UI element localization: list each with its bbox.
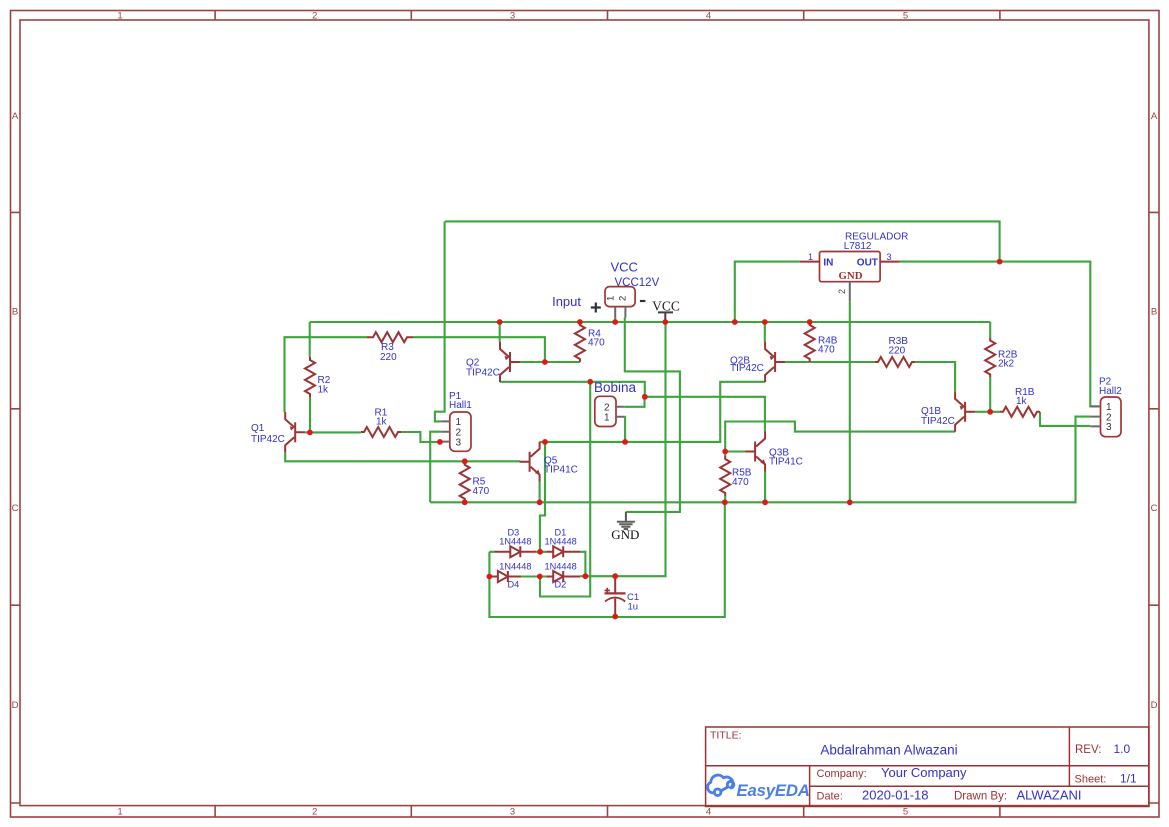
svg-text:Abdalrahman Alwazani: Abdalrahman Alwazani bbox=[820, 743, 957, 758]
wire R3 node bbox=[285, 337, 545, 412]
svg-text:VCC: VCC bbox=[611, 260, 638, 275]
svg-text:5: 5 bbox=[903, 807, 908, 818]
wire battery pin2 to GND flag bbox=[625, 318, 680, 512]
wire regulator GND down bbox=[849, 301, 851, 502]
svg-text:470: 470 bbox=[588, 338, 605, 349]
junction Q2 collector tap bbox=[587, 379, 593, 385]
wire battery pin1 bbox=[614, 318, 616, 323]
svg-text:TITLE:: TITLE: bbox=[710, 730, 742, 742]
resistor R3 bbox=[367, 332, 413, 342]
svg-text:2k2: 2k2 bbox=[998, 359, 1015, 370]
right border ticks bbox=[1149, 212, 1159, 803]
junction Q5 emitter rail bbox=[537, 499, 543, 505]
svg-text:2: 2 bbox=[312, 807, 317, 818]
svg-text:1N4448: 1N4448 bbox=[545, 562, 577, 572]
wire Q2 collector to Bobina pin2 node bbox=[500, 382, 645, 397]
junction bus Q2 emitter bbox=[497, 319, 503, 325]
svg-text:470: 470 bbox=[732, 477, 749, 488]
svg-text:1N4448: 1N4448 bbox=[545, 536, 577, 546]
svg-text:C: C bbox=[1151, 503, 1158, 514]
titleblock divider row1 bbox=[706, 765, 1149, 767]
junction C1 top bbox=[612, 573, 618, 579]
transistor Q3B bbox=[745, 432, 766, 472]
resistor R1B bbox=[1000, 407, 1040, 417]
svg-text:2: 2 bbox=[617, 296, 628, 301]
svg-text:OUT: OUT bbox=[857, 257, 878, 268]
svg-text:4: 4 bbox=[706, 11, 711, 22]
svg-text:D: D bbox=[12, 700, 19, 711]
wire R2B top bbox=[989, 322, 991, 338]
svg-text:1: 1 bbox=[604, 413, 610, 424]
junction Q2 base bbox=[542, 359, 548, 365]
svg-text:TIP41C: TIP41C bbox=[544, 465, 578, 476]
junction diode row2 left bbox=[487, 574, 493, 580]
svg-text:A: A bbox=[12, 111, 19, 122]
junction bus Q2B emitter bbox=[762, 319, 768, 325]
transistor Q1B bbox=[955, 392, 975, 432]
svg-text:A: A bbox=[1151, 111, 1158, 122]
transistor Q5 bbox=[520, 442, 541, 482]
resistor R5B bbox=[720, 456, 730, 496]
svg-text:1.0: 1.0 bbox=[1114, 742, 1131, 756]
junction Q1B base R2B bbox=[987, 409, 993, 415]
svg-text:Sheet:: Sheet: bbox=[1075, 774, 1107, 786]
wire R3B right to Q1B emitter bbox=[915, 362, 955, 392]
junction diode row2 right bbox=[583, 573, 589, 579]
input plus symbol bbox=[591, 303, 601, 313]
svg-text:1N4448: 1N4448 bbox=[499, 536, 531, 546]
diode D2 bbox=[546, 571, 580, 582]
wire Q2B emitter bbox=[764, 322, 766, 342]
svg-text:D4: D4 bbox=[508, 580, 520, 590]
junction Q1 base bbox=[307, 430, 313, 436]
svg-text:2020-01-18: 2020-01-18 bbox=[862, 788, 929, 803]
junction Q3B base R5B top bbox=[722, 449, 728, 455]
wire R2B bottom bbox=[989, 377, 991, 412]
wire R5B stubs bbox=[724, 452, 726, 503]
titleblock divider col rev bbox=[1068, 727, 1070, 786]
titleblock divider col logo bbox=[809, 766, 811, 807]
left border ticks bbox=[11, 212, 21, 803]
svg-text:1N4448: 1N4448 bbox=[499, 562, 531, 572]
titleblock divider row2 bbox=[810, 785, 1149, 787]
wire bus to R2 top bbox=[309, 322, 311, 357]
wire Q2 emitter to bus bbox=[499, 322, 501, 342]
connector P1 Hall1 bbox=[441, 412, 471, 451]
diode D1 bbox=[546, 546, 580, 557]
wire bottom rail bbox=[430, 417, 1090, 503]
junction bus VCC flag bbox=[662, 319, 668, 325]
junction P1 pin3 bbox=[437, 439, 443, 445]
regulator U L7812 bbox=[800, 252, 900, 302]
svg-text:TIP42C: TIP42C bbox=[730, 363, 764, 374]
junction bus R4B bbox=[807, 319, 813, 325]
TITLEBLOCK bbox=[706, 727, 1149, 807]
junction Q5 collector tap bbox=[542, 439, 548, 445]
svg-text:REV:: REV: bbox=[1075, 744, 1101, 756]
junction bus battery pin1 bbox=[612, 319, 618, 325]
junction Bobina pin2 node bbox=[642, 394, 648, 400]
svg-text:TIP41C: TIP41C bbox=[769, 457, 803, 468]
junction R5 bottom bbox=[462, 499, 468, 505]
diode D4 bbox=[490, 571, 521, 582]
transistor Q1 bbox=[285, 412, 305, 452]
resistor R1 bbox=[361, 427, 401, 437]
svg-text:1u: 1u bbox=[628, 602, 639, 613]
wire diode row2 bbox=[521, 322, 666, 577]
svg-text:Hall1: Hall1 bbox=[449, 400, 472, 411]
wire Q2B base to R4B bbox=[785, 361, 810, 363]
wire Bobina pin2 node to Q3B collector bbox=[645, 397, 765, 432]
wire regulator IN bbox=[735, 262, 800, 322]
svg-text:1/1: 1/1 bbox=[1120, 772, 1137, 786]
svg-text:1: 1 bbox=[606, 296, 617, 301]
wire Bobina pin1 drop bbox=[623, 417, 626, 442]
wire R1 right to P1 pin3 bbox=[401, 432, 441, 442]
svg-text:B: B bbox=[12, 307, 18, 318]
svg-text:C: C bbox=[12, 503, 19, 514]
svg-text:ALWAZANI: ALWAZANI bbox=[1017, 788, 1082, 803]
svg-text:TIP42C: TIP42C bbox=[251, 434, 285, 445]
wire Bobina pin2 bbox=[624, 397, 644, 407]
svg-text:1k: 1k bbox=[318, 385, 330, 396]
svg-text:2: 2 bbox=[837, 289, 847, 294]
junction regulator GND rail bbox=[847, 499, 853, 505]
transistor Q2 bbox=[500, 342, 520, 382]
bottom border ticks bbox=[215, 806, 1000, 817]
svg-text:D2: D2 bbox=[555, 580, 567, 590]
svg-text:VCC: VCC bbox=[652, 298, 680, 313]
svg-text:470: 470 bbox=[473, 486, 490, 497]
easyeda logo cloud bbox=[708, 775, 734, 795]
svg-text:1: 1 bbox=[117, 11, 122, 22]
wire Q1 collector to Q5 base bbox=[285, 452, 520, 461]
wire coil node down left bbox=[540, 382, 590, 597]
resistor R2 bbox=[305, 357, 315, 397]
svg-text:Date:: Date: bbox=[817, 791, 843, 803]
junction diode row1 mid bbox=[537, 549, 543, 555]
svg-text:TIP42C: TIP42C bbox=[921, 416, 955, 427]
netflag GND bbox=[611, 512, 639, 542]
svg-text:GND: GND bbox=[839, 270, 863, 282]
wire diode left vertical bbox=[489, 502, 724, 617]
svg-text:Drawn By:: Drawn By: bbox=[954, 791, 1007, 803]
svg-text:TIP42C: TIP42C bbox=[466, 368, 500, 379]
svg-text:4: 4 bbox=[706, 807, 711, 818]
wire R4B bottom to R3B left bbox=[810, 361, 875, 363]
junction C1 bottom bbox=[612, 614, 618, 620]
wire Q5 collector node bbox=[540, 382, 766, 442]
wire Q2 base to R4 bottom bbox=[520, 361, 580, 363]
titleblock outer rect bbox=[706, 727, 1149, 807]
wire R1B elbow to P2 pin3 bbox=[1040, 412, 1090, 426]
junction R5 top bbox=[462, 458, 468, 464]
wire P1 pin2 down to rail bbox=[430, 432, 441, 503]
junction bus regulator IN bbox=[732, 319, 738, 325]
svg-text:3: 3 bbox=[510, 11, 515, 22]
wire main VCC bus bbox=[310, 321, 991, 323]
svg-text:Bobina: Bobina bbox=[594, 380, 637, 395]
wire diode row1 bbox=[489, 552, 585, 576]
svg-text:Your Company: Your Company bbox=[881, 765, 967, 780]
svg-text:Q1: Q1 bbox=[251, 423, 265, 434]
wire regulator OUT to P2 pin1 bbox=[900, 262, 1101, 407]
junction Q3B emitter rail bbox=[762, 499, 768, 505]
wire Q1B base node bbox=[975, 411, 1000, 413]
svg-text:Company:: Company: bbox=[817, 768, 867, 780]
svg-text:VCC12V: VCC12V bbox=[615, 277, 660, 289]
connector Bobina bbox=[595, 396, 624, 426]
resistor R2B bbox=[985, 338, 995, 377]
svg-text:1k: 1k bbox=[376, 417, 388, 428]
transistor Q2B bbox=[765, 342, 785, 382]
wire top horizontal VCC feed bbox=[445, 221, 1000, 261]
netflag VCC input bbox=[652, 298, 680, 322]
svg-text:3: 3 bbox=[887, 252, 892, 262]
wire left vertical to P1 pin1 bbox=[435, 221, 445, 421]
svg-text:220: 220 bbox=[889, 346, 906, 357]
connector P2 Hall2 bbox=[1090, 397, 1121, 437]
svg-text:2: 2 bbox=[312, 11, 317, 22]
resistor R5 bbox=[460, 462, 470, 503]
svg-text:GND: GND bbox=[611, 527, 639, 542]
svg-text:Hall2: Hall2 bbox=[1099, 386, 1122, 397]
svg-text:1: 1 bbox=[808, 252, 813, 262]
svg-text:Input: Input bbox=[552, 294, 581, 309]
svg-text:EasyEDA: EasyEDA bbox=[737, 781, 810, 800]
junction diode row2 mid bbox=[537, 574, 543, 580]
svg-text:3: 3 bbox=[510, 807, 515, 818]
wire Q3B emitter down bbox=[764, 472, 766, 503]
wire Q1 emitter up bbox=[284, 411, 286, 413]
svg-text:B: B bbox=[1151, 307, 1157, 318]
resistor R4B bbox=[805, 322, 815, 362]
svg-text:1k: 1k bbox=[1016, 396, 1028, 407]
svg-text:3: 3 bbox=[456, 437, 462, 448]
svg-text:470: 470 bbox=[818, 345, 835, 356]
wire D row1 tap bbox=[540, 442, 545, 552]
diode D3 bbox=[494, 546, 536, 557]
svg-text:IN: IN bbox=[823, 257, 833, 268]
resistor R4 bbox=[575, 322, 585, 362]
resistor R3B bbox=[875, 357, 915, 367]
wire Q5 emitter down bbox=[539, 482, 541, 503]
junction Bobina pin1 node bbox=[622, 439, 628, 445]
junction bus R4 bbox=[577, 319, 583, 325]
input minus symbol bbox=[640, 300, 646, 302]
junction R5B bottom rail bbox=[722, 499, 728, 505]
wire R5 stubs bbox=[464, 461, 466, 502]
battery VCC12V bbox=[605, 287, 635, 318]
wire Q3B base bbox=[725, 450, 745, 452]
svg-text:220: 220 bbox=[380, 352, 397, 363]
svg-text:1: 1 bbox=[117, 807, 122, 818]
svg-text:D: D bbox=[1151, 700, 1158, 711]
svg-text:3: 3 bbox=[1106, 422, 1112, 433]
junction OUT node bbox=[997, 259, 1003, 265]
svg-text:5: 5 bbox=[903, 11, 908, 22]
capacitor C1 bbox=[605, 577, 626, 617]
svg-text:L7812: L7812 bbox=[844, 241, 872, 252]
wire Q1B collector to Q3B base node bbox=[725, 422, 955, 452]
top border ticks bbox=[215, 11, 1000, 21]
wire R2 bottom to Q1 base node bbox=[305, 397, 361, 432]
